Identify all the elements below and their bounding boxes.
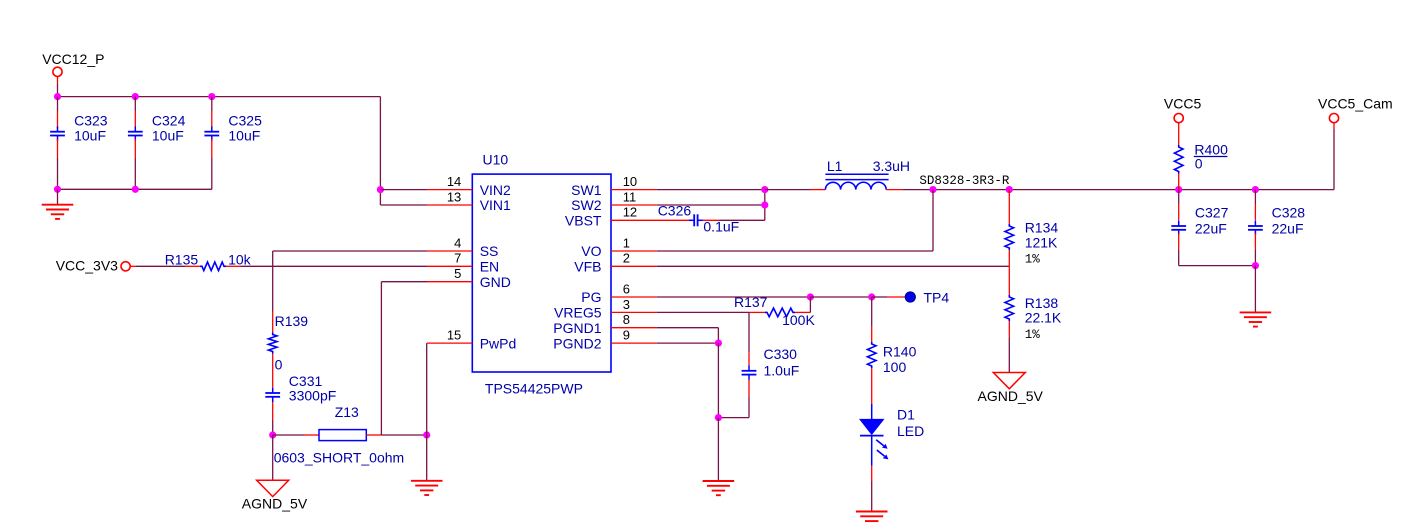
- wire L1 to VCC5 bus: [886, 189, 902, 191]
- pin 8 PGND1 stub: [611, 327, 657, 329]
- resistor R134: [1005, 224, 1014, 250]
- ground below C323: [42, 204, 74, 206]
- wire C327 top lead: [1178, 190, 1180, 204]
- wire R135 to EN pin: [226, 265, 241, 267]
- wire SS horizontal: [273, 250, 427, 252]
- wire C328 top lead: [1254, 190, 1256, 204]
- op-amp U10 TPS54425PWP body: [472, 174, 611, 372]
- power symbol VCC5: [1174, 114, 1183, 123]
- svg-text:R140: R140: [883, 343, 917, 359]
- svg-text:U10: U10: [483, 151, 509, 167]
- wire VIN1: [380, 204, 427, 206]
- wire VCC5_Cam riser: [1333, 123, 1335, 129]
- LED arrows: [876, 440, 884, 457]
- svg-text:6: 6: [623, 281, 630, 296]
- wire PwPd riser: [426, 343, 428, 435]
- node TP4 junction: [868, 293, 875, 300]
- wire C325 top lead: [211, 97, 213, 111]
- wire R137 to PG: [795, 311, 810, 313]
- wire R138 to AGND: [1008, 321, 1010, 338]
- pin 11 SW2 stub: [611, 204, 657, 206]
- svg-text:VCC5: VCC5: [1164, 96, 1202, 112]
- svg-text:C325: C325: [228, 112, 262, 128]
- svg-text:1: 1: [623, 235, 630, 250]
- svg-text:R134: R134: [1025, 220, 1059, 236]
- capacitor C330: [742, 370, 757, 372]
- svg-text:3.3uH: 3.3uH: [873, 158, 910, 174]
- resistor R138: [1005, 295, 1014, 321]
- wire C331 bottom lead: [272, 402, 274, 420]
- svg-text:D1: D1: [897, 406, 915, 422]
- wire VCC_3V3 to R135: [130, 265, 136, 267]
- jumper Z13: [319, 430, 366, 441]
- wire PG to TP4: [810, 296, 871, 298]
- ground AGND_5V right: [993, 373, 1025, 389]
- wire SS riser: [272, 251, 274, 312]
- node SW junction 1: [761, 186, 768, 193]
- wire SW to L1: [765, 189, 811, 191]
- svg-text:22uF: 22uF: [1272, 220, 1304, 236]
- pin 9 PGND2 stub: [611, 342, 657, 344]
- svg-text:VCC_3V3: VCC_3V3: [56, 258, 118, 274]
- svg-text:TPS54425PWP: TPS54425PWP: [485, 380, 583, 396]
- wire VREG5 to R137: [657, 311, 749, 313]
- wire VFB: [657, 265, 1010, 267]
- pin 10 SW1 stub: [611, 189, 657, 191]
- wire SW1-SW2 tie: [764, 190, 766, 205]
- node VIN2 junction: [377, 186, 384, 193]
- svg-text:100K: 100K: [782, 312, 815, 328]
- svg-text:C327: C327: [1195, 204, 1229, 220]
- svg-text:SW2: SW2: [571, 197, 602, 213]
- svg-text:1.0uF: 1.0uF: [764, 362, 800, 378]
- svg-text:10uF: 10uF: [152, 128, 184, 144]
- node Z13 right junction: [423, 431, 430, 438]
- wire to output ground: [1254, 266, 1256, 313]
- wire R139 top lead: [272, 312, 274, 333]
- capacitor C327: [1171, 225, 1186, 227]
- svg-text:3300pF: 3300pF: [289, 388, 336, 404]
- pin 15 PwPd stub: [427, 342, 472, 344]
- svg-text:8: 8: [623, 312, 630, 327]
- node top bus junction 1: [54, 93, 61, 100]
- ground AGND_5V left: [257, 480, 289, 496]
- svg-text:1%: 1%: [1025, 253, 1041, 267]
- svg-text:10uF: 10uF: [74, 128, 106, 144]
- capacitor C326: [693, 214, 695, 226]
- wire TP4 lead: [872, 296, 888, 298]
- capacitor C328: [1248, 225, 1263, 227]
- svg-text:VO: VO: [581, 243, 601, 259]
- svg-text:10uF: 10uF: [228, 128, 260, 144]
- svg-text:SW1: SW1: [571, 182, 602, 198]
- svg-text:PGND1: PGND1: [553, 320, 601, 336]
- node Z13 left junction: [269, 431, 276, 438]
- wire D1 to ground: [871, 436, 873, 466]
- wire C326 to SW: [703, 219, 719, 221]
- wire C324 top lead: [134, 97, 136, 111]
- svg-text:15: 15: [447, 328, 461, 343]
- wire R139 to C331: [272, 354, 274, 388]
- svg-text:14: 14: [447, 174, 461, 189]
- node PGND junction: [715, 340, 722, 347]
- resistor R139: [268, 333, 277, 354]
- wire C324 bottom lead: [134, 139, 136, 158]
- resistor R137: [765, 308, 795, 317]
- node R134 junction: [1006, 186, 1013, 193]
- wire R138 top lead: [1008, 266, 1010, 295]
- wire caps bottom bus: [58, 188, 212, 190]
- wire AGND drop: [272, 435, 274, 480]
- wire to Z13: [273, 434, 305, 436]
- pin 2 VFB stub: [611, 265, 657, 267]
- pin 13 VIN1 stub: [427, 204, 472, 206]
- svg-text:4: 4: [454, 235, 461, 250]
- wire VIN2: [380, 189, 427, 191]
- wire PGND1: [657, 327, 719, 329]
- svg-text:R135: R135: [165, 252, 199, 268]
- svg-text:13: 13: [447, 189, 461, 204]
- wire R134 top lead: [1008, 190, 1010, 224]
- svg-text:100: 100: [883, 359, 907, 375]
- wire PGND2: [657, 342, 719, 344]
- wire C327 bottom lead: [1178, 233, 1180, 250]
- svg-text:VBST: VBST: [565, 213, 602, 229]
- capacitor C323: [50, 131, 65, 133]
- pin 1 VO stub: [611, 250, 657, 252]
- pin 5 GND stub: [427, 281, 472, 283]
- wire C330 bottom: [748, 380, 750, 397]
- svg-text:9: 9: [623, 328, 630, 343]
- svg-text:VIN1: VIN1: [480, 197, 511, 213]
- wire R134 bottom lead: [1008, 250, 1010, 266]
- wire C325 bottom lead: [211, 139, 213, 158]
- node bottom bus junction 1: [54, 186, 61, 193]
- svg-text:3: 3: [623, 297, 630, 312]
- wire to earth ground: [426, 435, 428, 481]
- pin 3 VREG5 stub: [611, 311, 657, 313]
- svg-text:0: 0: [1195, 156, 1203, 172]
- svg-text:Z13: Z13: [335, 404, 359, 420]
- svg-text:0603_SHORT_0ohm: 0603_SHORT_0ohm: [274, 449, 404, 465]
- node VO junction: [929, 186, 936, 193]
- node top bus junction 2: [132, 93, 139, 100]
- wire VIN riser: [379, 97, 381, 205]
- svg-text:7: 7: [454, 251, 461, 266]
- svg-text:5: 5: [454, 266, 461, 281]
- node output gnd junction: [1252, 262, 1259, 269]
- ground below D1: [856, 511, 888, 513]
- svg-text:R137: R137: [734, 294, 768, 310]
- wire VCC12_P vertical: [57, 76, 59, 84]
- svg-text:LED: LED: [897, 423, 924, 439]
- svg-text:L1: L1: [827, 158, 843, 174]
- svg-text:VCC5_Cam: VCC5_Cam: [1318, 96, 1393, 112]
- power symbol VCC5_Cam: [1329, 114, 1338, 123]
- svg-text:EN: EN: [480, 259, 499, 275]
- svg-text:C331: C331: [289, 373, 323, 389]
- pin 6 PG stub: [611, 296, 657, 298]
- svg-text:0.1uF: 0.1uF: [703, 219, 739, 235]
- svg-text:PGND2: PGND2: [553, 335, 601, 351]
- wire VCC12_P top bus: [58, 96, 381, 98]
- wire Z13 to junction: [366, 434, 381, 436]
- svg-text:C328: C328: [1272, 204, 1306, 220]
- capacitor C325: [204, 131, 219, 133]
- wire output caps bottom bus: [1179, 265, 1256, 267]
- svg-text:C330: C330: [764, 346, 798, 362]
- wire VO: [657, 250, 933, 252]
- diode D1 LED: [860, 419, 884, 434]
- svg-text:2: 2: [623, 251, 630, 266]
- inductor L1: [825, 182, 886, 189]
- svg-text:10k: 10k: [228, 252, 252, 268]
- ground PGND: [703, 480, 735, 482]
- node bottom bus junction 2: [132, 186, 139, 193]
- svg-text:GND: GND: [480, 274, 511, 290]
- svg-text:121K: 121K: [1025, 235, 1058, 251]
- node C328 junction: [1252, 186, 1259, 193]
- svg-text:10: 10: [623, 174, 637, 189]
- node VCC5 junction: [1175, 186, 1182, 193]
- svg-text:SS: SS: [480, 243, 499, 259]
- svg-text:VFB: VFB: [574, 259, 601, 275]
- svg-text:PG: PG: [581, 289, 601, 305]
- wire R140 top lead: [871, 297, 873, 326]
- svg-text:SD8328-3R3-R: SD8328-3R3-R: [919, 174, 1010, 188]
- wire R400 bottom lead: [1178, 174, 1180, 190]
- svg-text:PwPd: PwPd: [480, 335, 517, 351]
- wire GND pin riser: [381, 281, 427, 283]
- resistor R400: [1174, 145, 1183, 174]
- svg-text:AGND_5V: AGND_5V: [978, 388, 1044, 404]
- svg-text:22.1K: 22.1K: [1025, 310, 1062, 326]
- svg-text:1%: 1%: [1025, 328, 1041, 342]
- svg-text:22uF: 22uF: [1195, 220, 1227, 236]
- svg-text:VIN2: VIN2: [480, 182, 511, 198]
- wire C323 top lead: [57, 97, 59, 111]
- node PGND bottom junction: [715, 414, 722, 421]
- wire C330 riser: [748, 312, 750, 352]
- svg-text:0: 0: [275, 356, 283, 372]
- node top bus junction 3: [208, 93, 215, 100]
- resistor R135: [200, 262, 226, 271]
- wire SW2: [657, 204, 765, 206]
- svg-text:R139: R139: [275, 313, 309, 329]
- svg-text:VCC12_P: VCC12_P: [42, 51, 104, 67]
- pin 12 VBST stub: [611, 219, 691, 221]
- resistor R140: [867, 342, 876, 368]
- svg-text:C324: C324: [152, 112, 186, 128]
- wire C328 bottom lead: [1254, 233, 1256, 250]
- svg-text:C323: C323: [74, 112, 108, 128]
- wire R140 to D1: [871, 368, 873, 404]
- pin 14 VIN2 stub: [427, 189, 472, 191]
- wire PGND to ground: [717, 418, 719, 481]
- pin 7 EN stub: [427, 265, 472, 267]
- svg-text:AGND_5V: AGND_5V: [242, 496, 308, 512]
- power symbol VCC_3V3: [121, 262, 130, 271]
- pin 4 SS stub: [427, 250, 472, 252]
- wire to ground: [57, 189, 59, 204]
- wire VBST riser: [764, 205, 766, 220]
- wire PG: [657, 296, 811, 298]
- power symbol VCC12_P: [53, 67, 62, 76]
- capacitor C324: [128, 131, 143, 133]
- wire SW1: [657, 189, 765, 191]
- svg-text:VREG5: VREG5: [554, 305, 602, 321]
- svg-text:11: 11: [623, 189, 637, 204]
- wire PGND riser: [717, 343, 719, 418]
- svg-text:TP4: TP4: [924, 290, 950, 306]
- wire C323 bottom lead: [57, 139, 59, 158]
- node SW junction 2: [761, 201, 768, 208]
- wire VCC5 to R400: [1178, 123, 1180, 145]
- test point TP4: [905, 292, 915, 302]
- svg-text:12: 12: [623, 205, 637, 220]
- ground right of Z13: [411, 480, 443, 482]
- node PG junction: [807, 293, 814, 300]
- capacitor C331: [265, 392, 280, 394]
- ground output: [1240, 311, 1272, 313]
